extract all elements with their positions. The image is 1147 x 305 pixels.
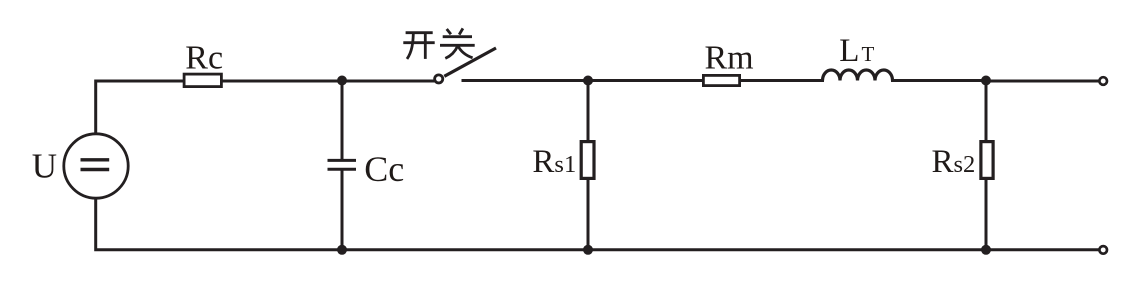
wire Rs2 branch (985, 81, 988, 140)
terminal top right (1099, 77, 1107, 85)
wire Rs1 branch (587, 81, 590, 140)
wire inductor to Rs2 node (893, 79, 987, 82)
inductor LT (823, 33, 893, 81)
junction node Rs2 bottom (981, 245, 991, 255)
junction node Rs1 top (583, 76, 593, 86)
junction node Cc bottom (337, 245, 347, 255)
label 开 (403, 33, 434, 59)
wire Cc branch bottom (341, 171, 344, 250)
wire Rs2 node to top terminal (986, 80, 1099, 83)
wire Rc to Cc node to switch (223, 80, 434, 83)
wire Rs2 branch bottom (985, 179, 988, 250)
wire bottom rail (96, 199, 1099, 250)
wire Cc branch top (341, 81, 344, 159)
junction node Rs2 top (981, 76, 991, 86)
junction node Cc top (337, 76, 347, 86)
svg-text:Rc: Rc (185, 40, 223, 77)
resistor Rs1 (532, 142, 594, 180)
voltage source U (32, 134, 128, 198)
capacitor Cc (328, 149, 405, 189)
svg-text:Rm: Rm (705, 40, 754, 77)
svg-text:U: U (32, 147, 57, 186)
terminal bottom right (1099, 246, 1107, 254)
wire top rail left corner to Rc (96, 81, 183, 132)
resistor Rs2 (932, 142, 994, 181)
svg-text:Cc: Cc (364, 149, 404, 189)
wire after switch to Rs1 node (463, 79, 588, 82)
junction node Rs1 bottom (583, 245, 593, 255)
switch 开关 (403, 28, 496, 83)
wire Rs1 node to Rm (588, 79, 702, 82)
wire Rs1 branch bottom (587, 180, 590, 250)
resistor Rm (703, 40, 753, 86)
resistor Rc (184, 40, 223, 87)
label 关 (440, 28, 475, 58)
wire Rm to inductor (741, 79, 823, 82)
